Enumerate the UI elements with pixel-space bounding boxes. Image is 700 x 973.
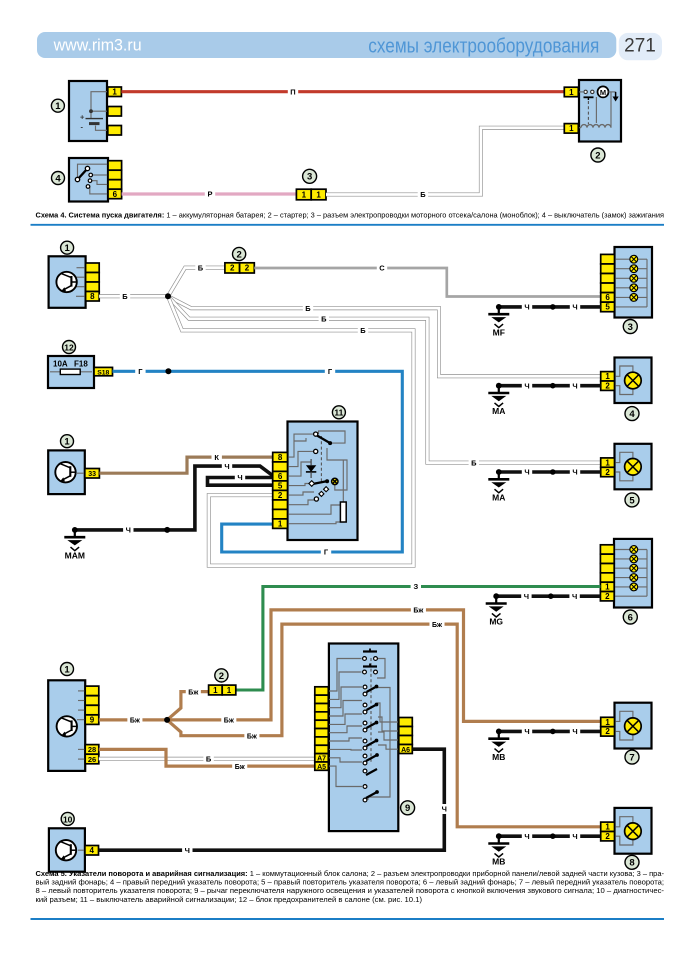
svg-text:Ч: Ч bbox=[572, 832, 577, 841]
svg-text:Б: Б bbox=[420, 190, 426, 199]
battery 1 (аккумуляторная батарея) bbox=[69, 81, 121, 141]
switch9 pin blank L7 bbox=[315, 737, 329, 745]
svg-text:8: 8 bbox=[629, 858, 634, 869]
header bar bbox=[37, 32, 616, 58]
switch11 pin blank2 bbox=[273, 500, 288, 510]
ground MF wire bbox=[499, 305, 601, 309]
label circle 9 (column switch) bbox=[401, 801, 415, 815]
wire Р (pink, ignition to connector 3) bbox=[122, 192, 297, 195]
battery pin 1 bbox=[108, 87, 122, 97]
lamp8 pin 2 bbox=[601, 832, 615, 841]
wire К (brown, block 1 to switch 11 pin 8) bbox=[99, 457, 272, 473]
wire label Ч (MA a) bbox=[522, 381, 532, 391]
svg-text:З: З bbox=[413, 582, 418, 591]
ignition pin 6 bbox=[108, 189, 122, 199]
wire label Ч (MB a) bbox=[522, 726, 532, 736]
wire label Ч (comp10) bbox=[182, 845, 192, 855]
switch 11 contact middle bbox=[313, 481, 327, 484]
wire label Бж (branch A1) bbox=[221, 715, 236, 725]
svg-text:6: 6 bbox=[628, 612, 633, 623]
label circle 3 (connector) bbox=[303, 169, 317, 183]
starter 2 (стартер) bbox=[564, 80, 621, 142]
wire label Ч (into pin 6) bbox=[222, 461, 232, 471]
svg-text:2: 2 bbox=[605, 832, 610, 841]
wire label Ч (MA2 a) bbox=[522, 467, 532, 477]
svg-text:Ч: Ч bbox=[524, 468, 529, 477]
wire label Б (pin8) bbox=[120, 291, 130, 301]
block1 pin blank a bbox=[86, 263, 100, 273]
blue divider line 2 bbox=[31, 918, 665, 920]
svg-text:Ч: Ч bbox=[442, 805, 447, 814]
block1 pin 8 bbox=[86, 292, 100, 302]
svg-text:1: 1 bbox=[55, 101, 61, 112]
switch 11 diode bbox=[306, 465, 316, 472]
connector 2 top (разъем приборной панели) bbox=[225, 263, 254, 273]
svg-text:П: П bbox=[290, 87, 295, 96]
switch9 pin blank L2 bbox=[315, 695, 329, 703]
block1b pin blank c bbox=[85, 705, 99, 715]
wire Ч (black, MAM to switch 11 pin 6) bbox=[75, 466, 273, 530]
svg-text:5: 5 bbox=[605, 303, 610, 312]
svg-text:8: 8 bbox=[90, 292, 95, 301]
block 1 transistor symbol bbox=[56, 272, 76, 292]
blue divider line 1 bbox=[31, 224, 665, 226]
svg-text:Ч: Ч bbox=[185, 846, 190, 855]
wire label Б (near lamp 5) bbox=[469, 458, 479, 468]
label circle 6 (rear lamp left) bbox=[623, 610, 637, 624]
svg-text:Ч: Ч bbox=[572, 468, 577, 477]
svg-text:26: 26 bbox=[88, 755, 96, 764]
block1b pin blank b bbox=[85, 696, 99, 706]
label circle 4 (ignition switch) bbox=[52, 172, 65, 185]
svg-text:Ч: Ч bbox=[572, 592, 577, 601]
wire label С bbox=[377, 263, 387, 273]
fuse F18 symbol bbox=[60, 369, 80, 374]
junction dot MB2 bbox=[550, 833, 556, 839]
svg-text:1: 1 bbox=[569, 124, 574, 133]
connector10 pin 4 bbox=[85, 846, 99, 856]
diagnostic connector 10 bbox=[49, 828, 85, 871]
svg-text:10: 10 bbox=[63, 814, 73, 824]
lamp3 pin blank4 bbox=[601, 283, 615, 293]
svg-text:MA: MA bbox=[492, 493, 505, 503]
label circle 4 (front lamp) bbox=[625, 407, 639, 421]
front turn lamp 7 (левый передний указатель) bbox=[601, 703, 652, 749]
wire label Ч (MB2 b) bbox=[570, 831, 580, 841]
svg-text:1: 1 bbox=[605, 372, 610, 381]
label circle 12 (fuse box) bbox=[63, 341, 76, 354]
lamp5 pin 1 bbox=[601, 458, 615, 467]
svg-text:Ч: Ч bbox=[126, 526, 131, 535]
lamp4 pin 1 bbox=[601, 372, 615, 381]
svg-text:вый задний фонарь; 4 – правый: вый задний фонарь; 4 – правый передний у… bbox=[36, 878, 665, 887]
svg-text:Ч: Ч bbox=[524, 303, 529, 312]
wire С (grey, connector 2 to lamp 3) bbox=[254, 268, 600, 297]
label circle 2 (connector top) bbox=[233, 247, 246, 260]
svg-text:4: 4 bbox=[89, 846, 94, 855]
svg-text:3: 3 bbox=[628, 322, 633, 333]
lamp4 pin 2 bbox=[601, 381, 615, 390]
ground MA bbox=[488, 383, 509, 416]
wire label Ч (jumper) bbox=[235, 473, 245, 483]
connector2b pin 1 left bbox=[209, 685, 223, 695]
label circle 5 (repeater lamp) bbox=[625, 493, 639, 507]
svg-text:Бж: Бж bbox=[247, 733, 258, 740]
wire Б branch to lamp 5 bbox=[168, 296, 601, 462]
lamp3 pin 6 bbox=[601, 293, 615, 303]
switch9 pin blank L6 bbox=[315, 729, 329, 737]
junction dot MA2 bbox=[550, 469, 556, 475]
switch9 pin blank L5 bbox=[315, 720, 329, 728]
ground MB bbox=[488, 729, 509, 762]
ignition pin (blank 3) bbox=[108, 180, 122, 190]
switch11 pin 2 bbox=[273, 490, 288, 500]
svg-text:2: 2 bbox=[605, 592, 610, 601]
svg-text:A6: A6 bbox=[401, 747, 410, 754]
svg-text:схемы электрооборудования: схемы электрооборудования bbox=[368, 36, 599, 58]
lamp3 pin blank2 bbox=[601, 264, 615, 274]
switch9 pin blank L1 bbox=[315, 687, 329, 695]
wire label Б bbox=[418, 190, 428, 200]
label circle 1 (block bottom) bbox=[61, 663, 74, 676]
lamp5 pin 2 bbox=[601, 467, 615, 476]
svg-text:Бж: Бж bbox=[235, 764, 246, 771]
repeater lamp 8 (левый повторитель) bbox=[601, 808, 652, 854]
svg-text:S18: S18 bbox=[97, 369, 109, 376]
lamp7 pin 2 bbox=[601, 727, 615, 736]
svg-text:2: 2 bbox=[230, 264, 235, 273]
svg-text:1: 1 bbox=[605, 458, 610, 467]
wire Ч jumper pins 6-5 of switch 11 bbox=[208, 478, 273, 486]
wire label Ч (MA b) bbox=[570, 381, 580, 391]
wire label Б (branch3) bbox=[358, 325, 368, 335]
switch9 pin A5 bbox=[315, 762, 329, 770]
connector 3 pin 1 left bbox=[296, 189, 311, 200]
wire label Ч (MA2 b) bbox=[570, 467, 580, 477]
wire label Ч (MF b) bbox=[570, 302, 580, 312]
label circle 11 (hazard switch) bbox=[332, 406, 345, 419]
svg-text:3: 3 bbox=[307, 172, 312, 183]
label circle 7 (front lamp left) bbox=[625, 750, 639, 764]
svg-text:1: 1 bbox=[278, 519, 283, 528]
wire Г (blue, fuse to switch 11 pin 1) bbox=[113, 371, 403, 552]
switch9 contact arms bbox=[363, 685, 367, 689]
svg-text:6: 6 bbox=[278, 472, 283, 481]
svg-text:1: 1 bbox=[316, 190, 321, 199]
svg-text:1: 1 bbox=[64, 437, 70, 448]
svg-text:8: 8 bbox=[278, 453, 283, 462]
block 10 transistor symbol bbox=[56, 840, 76, 860]
junction dot MA bbox=[550, 383, 556, 389]
switch9 pin blank L8 bbox=[315, 745, 329, 753]
block1b pin 28 bbox=[85, 745, 99, 755]
svg-text:Б: Б bbox=[321, 314, 327, 323]
svg-text:Бж: Бж bbox=[130, 718, 141, 725]
svg-text:MF: MF bbox=[493, 327, 505, 337]
wire label Ч (MB b) bbox=[570, 726, 580, 736]
wire label П bbox=[288, 87, 298, 97]
interior block 1 middle (коммутационный блок) bbox=[48, 450, 85, 494]
block1-mid pin 33 bbox=[85, 469, 100, 479]
svg-text:МВ: МВ bbox=[492, 857, 505, 867]
svg-text:F18: F18 bbox=[74, 360, 88, 369]
svg-text:МАМ: МАМ bbox=[65, 550, 85, 560]
connector 2 bottom (разъем задней части кузова) bbox=[209, 685, 236, 695]
ground MB wire (lamp 7) bbox=[499, 730, 601, 734]
block1b pin 9 bbox=[85, 715, 99, 725]
svg-text:1: 1 bbox=[64, 243, 70, 254]
svg-text:1: 1 bbox=[112, 88, 117, 97]
lamp6 pin 1 bbox=[600, 582, 614, 591]
svg-text:Бж: Бж bbox=[432, 622, 443, 629]
svg-text:Б: Б bbox=[198, 263, 204, 272]
wire label Ч (A6 vertical) bbox=[439, 804, 449, 814]
svg-text:4: 4 bbox=[629, 409, 635, 420]
lamp6 pin blank4 bbox=[600, 573, 614, 582]
svg-text:Ч: Ч bbox=[524, 727, 529, 736]
svg-text:Ч: Ч bbox=[572, 727, 577, 736]
wire Бж branch to lamp 8 bbox=[167, 624, 601, 827]
svg-text:12: 12 bbox=[64, 342, 74, 352]
wire Бж from pin 28 to A5 bbox=[99, 749, 315, 766]
svg-text:1: 1 bbox=[213, 686, 218, 695]
ground MF bbox=[488, 304, 509, 337]
switch9 pin blank L4 bbox=[315, 712, 329, 720]
lamp3 pin 5 bbox=[601, 302, 615, 312]
rear lamp 3 (правый задний фонарь) bbox=[601, 247, 652, 318]
lamp8 pin 1 bbox=[601, 822, 615, 831]
svg-text:Ч: Ч bbox=[524, 381, 529, 390]
svg-text:4: 4 bbox=[55, 173, 61, 184]
wire label Ч (MG a) bbox=[521, 591, 531, 601]
svg-text:Б: Б bbox=[360, 326, 366, 335]
svg-text:Схема 4. Система пуска двигате: Схема 4. Система пуска двигателя: 1 – ак… bbox=[36, 211, 665, 220]
svg-text:Схема 5. Указатели поворота и: Схема 5. Указатели поворота и аварийная … bbox=[36, 869, 665, 878]
rear lamp 6 (левый задний фонарь) bbox=[600, 539, 652, 608]
switch9 pin A7 bbox=[315, 754, 329, 762]
lamp6 pin blank2 bbox=[600, 554, 614, 563]
block1b pin 26 bbox=[85, 754, 99, 764]
starter pin 1 (bottom) bbox=[564, 124, 578, 134]
connector 3 (разъем моноблок) bbox=[296, 189, 326, 200]
wire Б (white, connector 3 to starter) bbox=[326, 128, 564, 195]
starter solenoid coil bbox=[581, 125, 611, 128]
svg-text:Ч: Ч bbox=[524, 832, 529, 841]
svg-text:9: 9 bbox=[90, 715, 95, 724]
battery pin (blank upper) bbox=[108, 107, 122, 117]
block1 pin blank c bbox=[86, 282, 100, 292]
wire label Ч (MG b) bbox=[569, 591, 579, 601]
lamp7 pin 1 bbox=[601, 717, 615, 726]
svg-text:Бж: Бж bbox=[188, 689, 199, 696]
wire Бж branch to lamp 7 bbox=[167, 610, 601, 722]
svg-text:Бж: Бж bbox=[413, 608, 424, 615]
battery pin (blank lower) bbox=[108, 126, 122, 136]
svg-text:Ч: Ч bbox=[572, 381, 577, 390]
switch11 pin 1 bbox=[273, 519, 288, 529]
wire label Б (branch1) bbox=[303, 303, 313, 313]
svg-text:С: С bbox=[379, 264, 385, 273]
svg-text:5: 5 bbox=[278, 481, 283, 490]
label circle 1 (block top) bbox=[61, 241, 74, 254]
svg-text:Ч: Ч bbox=[524, 592, 529, 601]
svg-text:MG: MG bbox=[489, 617, 503, 627]
label circle 1 (block mid) bbox=[61, 435, 74, 448]
label circle 2 (starter) bbox=[591, 148, 605, 162]
junction dot MF bbox=[550, 304, 556, 310]
switch9 horn buttons bbox=[363, 650, 377, 652]
lamp6 pin 2 bbox=[600, 592, 614, 601]
lamp6 pin blank1 bbox=[600, 545, 614, 554]
wire label Б (A7) bbox=[203, 754, 213, 764]
label circle 2 (connector bottom) bbox=[215, 669, 228, 682]
svg-text:1: 1 bbox=[605, 718, 610, 727]
svg-text:1: 1 bbox=[227, 686, 232, 695]
label circle 8 (repeater left) bbox=[625, 855, 639, 869]
ignition pin (blank 1) bbox=[108, 161, 122, 171]
svg-text:МВ: МВ bbox=[492, 752, 505, 762]
svg-text:2: 2 bbox=[219, 671, 224, 682]
connector2 top pin 2 left bbox=[225, 263, 240, 273]
wire П (red, battery to starter) bbox=[121, 90, 564, 93]
label circle 10 (diagnostic) bbox=[61, 812, 74, 825]
wire label Р bbox=[205, 189, 215, 199]
switch 11 contact top bbox=[317, 436, 330, 444]
wire label Бж (A5) bbox=[232, 761, 247, 771]
svg-text:Б: Б bbox=[471, 458, 477, 467]
svg-text:28: 28 bbox=[88, 745, 96, 754]
label circle 1 (battery) bbox=[51, 99, 64, 112]
switch 11 resistor bbox=[340, 502, 346, 522]
junction dot MB bbox=[550, 729, 556, 735]
svg-text:Г: Г bbox=[138, 367, 143, 376]
switch11 pin 8 bbox=[273, 452, 288, 462]
wire Бж branch to connector 2 bottom bbox=[167, 692, 209, 720]
column switch lever 9 (рычаг переключателя) bbox=[315, 644, 413, 832]
ground MB2 wire (lamp 8) bbox=[499, 834, 601, 838]
starter pin 1 (top) bbox=[564, 87, 578, 97]
connector2 top pin 2 right bbox=[240, 263, 255, 273]
svg-text:Б: Б bbox=[122, 292, 128, 301]
svg-text:Р: Р bbox=[207, 190, 212, 199]
wire label Б (branch2) bbox=[319, 314, 329, 324]
wire label Ч (MAM horizontal) bbox=[123, 525, 133, 535]
label circle 3 (rear lamp) bbox=[623, 320, 637, 334]
junction dot MAM bbox=[164, 527, 170, 533]
wire label Бж (to conn2b) bbox=[186, 687, 201, 697]
svg-text:кий разъем; 11 – выключатель а: кий разъем; 11 – выключатель аварийной с… bbox=[36, 895, 423, 904]
wire label Бж (branch B1) bbox=[244, 731, 259, 741]
switch11 pin blank1 bbox=[273, 462, 288, 472]
svg-text:Г: Г bbox=[328, 367, 333, 376]
svg-text:1: 1 bbox=[569, 88, 574, 97]
switch9 pin blank R1 bbox=[399, 718, 413, 727]
svg-text:1: 1 bbox=[605, 823, 610, 832]
wire Б branch to switch 11 pin 2 bbox=[168, 296, 414, 565]
wire Б from pin 26 to A7 bbox=[99, 757, 315, 761]
wire Б branch to connector 2 bbox=[168, 268, 225, 297]
fuse pin S18 bbox=[94, 367, 113, 375]
caption scheme 5 bbox=[36, 869, 665, 904]
switch11 pin 5 bbox=[273, 481, 288, 491]
ground MAM bbox=[64, 527, 85, 560]
svg-text:2: 2 bbox=[605, 727, 610, 736]
ground MA2 bbox=[488, 469, 509, 502]
ignition pin (blank 2) bbox=[108, 170, 122, 180]
wire Бж from pin 9 bbox=[99, 718, 167, 721]
wire label Б (to conn2) bbox=[195, 263, 205, 273]
junction dot (white wires) bbox=[165, 293, 171, 299]
ground MA2 wire bbox=[499, 470, 601, 474]
fuse box 12 (блок предохранителей) bbox=[48, 356, 113, 388]
svg-text:8 – левый повторитель указател: 8 – левый повторитель указателя поворота… bbox=[36, 886, 665, 895]
ignition switch 4 (замок зажигания) bbox=[69, 158, 122, 202]
svg-text:10A: 10A bbox=[53, 360, 68, 369]
wire label К bbox=[212, 452, 222, 462]
svg-text:6: 6 bbox=[113, 190, 118, 199]
switch 11 indicator lamp bbox=[332, 478, 338, 484]
svg-text:www.rim3.ru: www.rim3.ru bbox=[53, 36, 142, 55]
wire label Ч (MB2 a) bbox=[522, 831, 532, 841]
page number 271 bbox=[619, 33, 662, 60]
block1b pin blank a bbox=[85, 686, 99, 696]
block1 pin blank b bbox=[86, 273, 100, 283]
wire label Ч (MF a) bbox=[522, 302, 532, 312]
connector 3 pin 1 right bbox=[311, 189, 326, 200]
svg-text:2: 2 bbox=[245, 264, 250, 273]
switch 11 contacts lower bbox=[324, 487, 329, 492]
interior block 1 top (коммутационный блок) bbox=[49, 256, 86, 308]
wire З (green, connector 2 bottom to lamp 6) bbox=[236, 587, 601, 691]
svg-text:К: К bbox=[214, 453, 219, 462]
svg-text:11: 11 bbox=[334, 408, 343, 418]
svg-text:5: 5 bbox=[629, 495, 635, 506]
block 1 mid transistor symbol bbox=[55, 462, 75, 482]
lamp3 pin blank3 bbox=[601, 274, 615, 284]
wire label Г (a) bbox=[135, 366, 145, 376]
repeater lamp 5 (правый повторитель) bbox=[601, 444, 652, 490]
svg-text:2: 2 bbox=[236, 249, 241, 260]
wire Б from block1 pin 8 bbox=[99, 294, 168, 298]
wire Ч (black, connector 10 to switch 9 pin A6) bbox=[99, 749, 445, 850]
svg-text:2: 2 bbox=[605, 468, 610, 477]
hazard switch 11 (выключатель аварийной сигнализации) bbox=[273, 422, 358, 541]
svg-text:Бж: Бж bbox=[224, 718, 235, 725]
svg-text:2: 2 bbox=[605, 382, 610, 391]
block 1 bottom transistor symbol bbox=[57, 716, 77, 736]
wire label Г (b) bbox=[325, 366, 335, 376]
junction dot Бж bbox=[164, 717, 170, 723]
svg-text:Б: Б bbox=[305, 304, 311, 313]
wire label Бж (branch A2) bbox=[411, 605, 426, 615]
svg-text:Б: Б bbox=[206, 755, 212, 764]
svg-text:MA: MA bbox=[492, 406, 505, 416]
front turn lamp 4 (правый передний указатель) bbox=[601, 358, 652, 404]
ground MG bbox=[486, 593, 507, 626]
svg-text:2: 2 bbox=[595, 150, 600, 161]
svg-text:7: 7 bbox=[629, 753, 634, 764]
svg-text:6: 6 bbox=[605, 293, 610, 302]
switch9 pin blank L3 bbox=[315, 704, 329, 712]
wire label З bbox=[411, 582, 421, 592]
svg-text:M: M bbox=[600, 88, 606, 97]
svg-text:1: 1 bbox=[302, 190, 307, 199]
svg-text:A5: A5 bbox=[317, 764, 326, 771]
ground MA wire bbox=[499, 384, 601, 388]
svg-text:271: 271 bbox=[624, 36, 656, 57]
wire label Бж (pin9) bbox=[127, 715, 142, 725]
svg-text:Ч: Ч bbox=[572, 303, 577, 312]
